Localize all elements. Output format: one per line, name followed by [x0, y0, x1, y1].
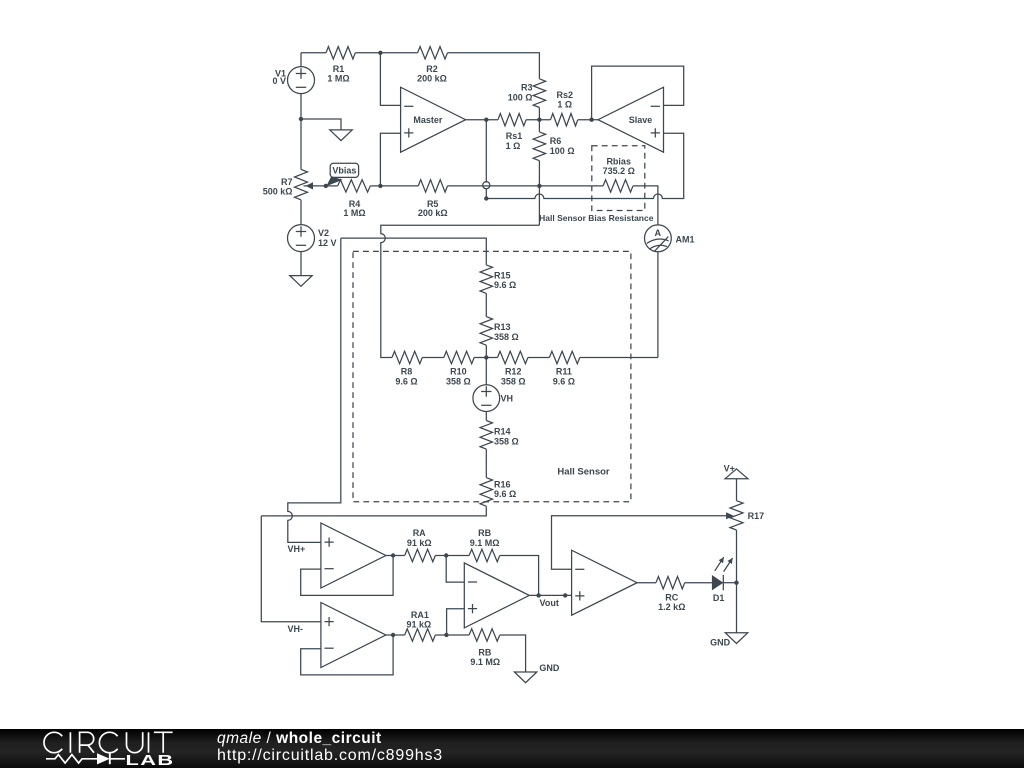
- wire hall top feed: [341, 238, 487, 265]
- resistor R8: [392, 351, 422, 363]
- ammeter AM1: [645, 225, 672, 252]
- wire RC to D1: [685, 582, 712, 584]
- svg-text:100 Ω: 100 Ω: [508, 92, 533, 102]
- resistor R12: [498, 351, 528, 363]
- svg-text:R10: R10: [450, 367, 467, 377]
- CircuitLab logo: [0, 729, 200, 769]
- node Vout 1: [536, 593, 540, 597]
- voltage source V2: [288, 225, 315, 252]
- wire comparator out to RC: [637, 582, 656, 584]
- wire Vbias to R4: [326, 185, 338, 187]
- resistor RB top: [469, 549, 500, 561]
- wire R16 bottom: [261, 506, 486, 516]
- svg-text:VH-: VH-: [288, 624, 304, 634]
- svg-text:VH: VH: [501, 394, 514, 404]
- label Rs2 value: [557, 90, 574, 110]
- LED D1: [712, 557, 733, 590]
- resistor Rs1: [498, 114, 526, 126]
- label RC value: [658, 593, 685, 612]
- label V1 value: [272, 69, 286, 87]
- wire Rs2 to Slave: [578, 119, 598, 121]
- op-amp Master: [401, 87, 466, 152]
- resistor RC: [656, 577, 685, 589]
- wire R15-R13: [485, 293, 487, 316]
- svg-text:RB: RB: [478, 528, 491, 538]
- svg-text:R17: R17: [748, 511, 765, 521]
- potentiometer R7: [295, 169, 308, 199]
- svg-text:Rs1: Rs1: [506, 131, 523, 141]
- svg-text:9.6 Ω: 9.6 Ω: [553, 376, 575, 386]
- node + input junction: [378, 184, 382, 188]
- svg-text:Hall Sensor: Hall Sensor: [557, 466, 610, 477]
- wire bridge left drop: [381, 225, 540, 357]
- svg-text:R14: R14: [494, 427, 511, 437]
- label RA1 value: [407, 610, 432, 630]
- wire VH+ feedback: [301, 556, 393, 596]
- wire R4 to R5: [370, 185, 418, 187]
- wire VH- feedback: [301, 635, 393, 675]
- arrow to R17 wiper: [726, 512, 734, 519]
- svg-text:12 V: 12 V: [318, 238, 337, 248]
- wire center to VH: [485, 358, 487, 385]
- ground below V2: [290, 276, 312, 287]
- dashed box Hall Sensor: [353, 251, 631, 501]
- supply V+: [724, 463, 748, 478]
- wire RA to RB: [435, 555, 469, 557]
- wire Master out down: [485, 120, 487, 199]
- svg-text:Rbias: Rbias: [606, 157, 631, 167]
- op-amp VH+ buffer: [321, 523, 386, 588]
- wire comparator - input: [552, 516, 728, 569]
- svg-text:91 kΩ: 91 kΩ: [407, 538, 432, 548]
- bottom bar: [0, 729, 1024, 768]
- wire Rbias to AM1: [633, 186, 658, 225]
- op-amp difference: [464, 563, 529, 628]
- svg-text:Hall Sensor Bias Resistance: Hall Sensor Bias Resistance: [539, 213, 654, 223]
- dashed box Rbias: [592, 146, 645, 211]
- label GND right: [710, 638, 731, 648]
- node V1 bottom: [299, 117, 303, 121]
- wire R8-R10: [422, 357, 444, 359]
- svg-text:R15: R15: [494, 271, 511, 281]
- wire R17 to ground: [736, 530, 738, 633]
- flag Vbias: [326, 163, 358, 186]
- label R10 value: [446, 367, 471, 387]
- svg-text:358 Ω: 358 Ω: [494, 332, 519, 342]
- wire RB to output: [500, 556, 539, 596]
- resistor R13: [480, 317, 492, 346]
- node Vout 2: [563, 593, 567, 597]
- resistor R6: [533, 132, 545, 161]
- svg-text:1 Ω: 1 Ω: [557, 100, 572, 110]
- svg-text:100 Ω: 100 Ω: [550, 146, 575, 156]
- ground right: [725, 633, 747, 644]
- node VH+ output: [391, 553, 395, 557]
- svg-text:200 kΩ: 200 kΩ: [418, 208, 448, 218]
- resistor R1: [326, 47, 355, 59]
- label RB bottom value: [470, 648, 500, 668]
- label D1: [713, 593, 725, 603]
- resistor Rs2: [551, 114, 578, 126]
- label R7 value: [263, 177, 293, 196]
- label V2 value: [318, 228, 337, 248]
- node VH- output: [391, 633, 395, 637]
- svg-text:1 MΩ: 1 MΩ: [343, 208, 365, 218]
- wire AM1 down: [657, 252, 659, 358]
- wire Slave feedback top: [592, 66, 684, 120]
- svg-text:0 V: 0 V: [272, 76, 286, 86]
- label R13 value: [494, 322, 519, 342]
- wire R3 bottom: [538, 108, 540, 120]
- svg-text:R16: R16: [494, 479, 511, 489]
- wire to VH- input: [261, 516, 321, 622]
- node Master output: [484, 118, 488, 122]
- wire R1 to R2: [355, 52, 417, 54]
- label R3 value: [508, 83, 533, 103]
- label VH: [501, 394, 514, 404]
- svg-text:500 kΩ: 500 kΩ: [263, 187, 293, 197]
- resistor R11: [549, 351, 579, 363]
- svg-text:Rs2: Rs2: [557, 90, 574, 100]
- label R12 value: [501, 367, 526, 387]
- resistor R3: [533, 79, 545, 108]
- resistor R10: [444, 351, 474, 363]
- node D1 R17: [734, 581, 738, 585]
- svg-text:1.2 kΩ: 1.2 kΩ: [658, 602, 685, 612]
- svg-text:9.6 Ω: 9.6 Ω: [494, 489, 516, 499]
- svg-text:GND: GND: [710, 638, 731, 648]
- wire to ground stub: [301, 119, 341, 130]
- wire R12-R11: [528, 357, 550, 359]
- resistor R16: [480, 478, 492, 507]
- op-amp VH- buffer: [321, 603, 386, 668]
- wire center-R12: [486, 357, 497, 359]
- svg-text:1 MΩ: 1 MΩ: [327, 74, 349, 84]
- svg-text:200 kΩ: 200 kΩ: [417, 74, 447, 84]
- wire V1 to R7: [300, 119, 302, 169]
- svg-text:LAB: LAB: [126, 751, 175, 768]
- wire V1 top to R1: [301, 52, 326, 54]
- svg-text:358 Ω: 358 Ω: [501, 376, 526, 386]
- svg-text:358 Ω: 358 Ω: [494, 436, 519, 446]
- label R2 value: [417, 64, 447, 84]
- node R6 bottom junction: [537, 184, 541, 188]
- svg-text:V2: V2: [318, 228, 329, 238]
- svg-text:R3: R3: [521, 83, 533, 93]
- wire to Master - input: [380, 53, 400, 106]
- resistor RB bottom: [469, 629, 500, 641]
- wire R5 to Rbias: [448, 185, 604, 187]
- node summing bottom: [444, 633, 448, 637]
- wire Slave + input: [486, 133, 683, 198]
- svg-text:R6: R6: [550, 136, 562, 146]
- R7 wiper arrow: [304, 182, 326, 189]
- wire RA1 to RB: [435, 634, 469, 636]
- ground mid: [514, 672, 536, 683]
- label R17: [748, 511, 765, 521]
- svg-text:D1: D1: [713, 593, 725, 603]
- svg-text:AM1: AM1: [676, 235, 695, 245]
- wire R2 to R3 top: [448, 53, 540, 79]
- svg-text:Slave: Slave: [629, 115, 653, 125]
- svg-text:R13: R13: [494, 322, 511, 332]
- label AM1: [676, 235, 695, 245]
- svg-text:9.1 MΩ: 9.1 MΩ: [470, 657, 500, 667]
- node mid junction: [537, 118, 541, 122]
- wire R3 to R6: [538, 120, 540, 132]
- svg-text:V+: V+: [724, 463, 735, 473]
- url line: [217, 748, 443, 764]
- wire hall left drop: [288, 238, 341, 542]
- wire to diff - input: [446, 556, 464, 583]
- open node: [483, 182, 490, 189]
- svg-text:9.1 MΩ: 9.1 MΩ: [470, 538, 500, 548]
- label R14 value: [494, 427, 519, 447]
- node Vbias wiper: [324, 184, 328, 188]
- svg-text:9.6 Ω: 9.6 Ω: [494, 280, 516, 290]
- resistor R2: [418, 47, 448, 59]
- svg-text:R1: R1: [333, 64, 345, 74]
- potentiometer R17: [730, 501, 743, 530]
- resistor R14: [480, 421, 492, 450]
- svg-text:R2: R2: [426, 64, 438, 74]
- label R5 value: [418, 199, 448, 218]
- wire VH to R14: [485, 412, 487, 421]
- wire VH- out to RA1: [386, 634, 405, 636]
- wire R13 down: [485, 345, 487, 357]
- svg-text:RA1: RA1: [411, 610, 429, 620]
- svg-text:735.2 Ω: 735.2 Ω: [603, 166, 635, 176]
- label R1 value: [327, 64, 349, 84]
- wire R6 down: [538, 161, 540, 226]
- wire Rs1 to Rs2: [526, 119, 550, 121]
- svg-text:R12: R12: [505, 367, 522, 377]
- label RA value: [407, 528, 432, 548]
- wire VH+ out to RA: [386, 555, 405, 557]
- svg-text:R8: R8: [401, 367, 413, 377]
- wire R10-center: [474, 357, 486, 359]
- op-amp comparator: [572, 550, 638, 615]
- wire Vout: [529, 594, 571, 596]
- node bridge center: [484, 355, 488, 359]
- svg-text:91 kΩ: 91 kΩ: [407, 620, 432, 630]
- op-amp Slave: [598, 87, 664, 152]
- label Hall Sensor Bias Resistance: [539, 213, 654, 223]
- label GND mid: [539, 663, 560, 673]
- svg-text:Vout: Vout: [540, 598, 559, 608]
- node summing top: [444, 553, 448, 557]
- resistor R15: [480, 265, 492, 294]
- label Rs1 value: [506, 131, 523, 151]
- label R8 value: [395, 367, 417, 387]
- svg-text:A: A: [654, 228, 661, 238]
- wire V+ to R17: [736, 479, 738, 501]
- resistor RA: [405, 549, 436, 561]
- resistor R5: [418, 180, 447, 192]
- credit line: [217, 731, 382, 747]
- label VH-: [288, 624, 304, 634]
- wire Master output: [466, 119, 498, 121]
- wire V2 to ground: [300, 252, 302, 276]
- svg-text:VH+: VH+: [288, 544, 306, 554]
- svg-text:Master: Master: [413, 115, 443, 125]
- wire R11 to AM1 line: [580, 357, 658, 359]
- node Slave input: [589, 118, 593, 122]
- svg-text:358 Ω: 358 Ω: [446, 376, 471, 386]
- label RB top value: [470, 528, 500, 548]
- svg-text:RA: RA: [413, 528, 426, 538]
- label R11 value: [553, 367, 575, 387]
- wire D1 to R17 line: [723, 582, 736, 584]
- wire R7 to V2: [300, 200, 302, 225]
- label VH+: [288, 544, 306, 554]
- label Hall Sensor: [557, 466, 610, 477]
- label Vout: [540, 598, 559, 608]
- label R4 value: [343, 199, 365, 218]
- node wire B start: [484, 196, 488, 200]
- wire RB bottom to ground: [500, 635, 526, 672]
- svg-text:Vbias: Vbias: [332, 165, 356, 175]
- label Rbias value: [603, 157, 635, 177]
- label R15 value: [494, 271, 516, 291]
- voltage source VH: [473, 385, 500, 412]
- ground near V1: [330, 130, 352, 141]
- svg-text:R11: R11: [556, 367, 572, 377]
- svg-text:1 Ω: 1 Ω: [506, 141, 521, 151]
- resistor R4: [338, 180, 371, 192]
- voltage source V1: [288, 53, 315, 119]
- resistor Rbias: [603, 180, 633, 192]
- label R16 value: [494, 479, 516, 499]
- svg-text:RB: RB: [478, 648, 491, 658]
- wire to Master + input: [380, 133, 400, 186]
- resistor RA1: [405, 629, 436, 641]
- node junction top: [378, 51, 382, 55]
- wire to diff + input: [447, 609, 465, 635]
- svg-text:GND: GND: [539, 663, 560, 673]
- label R6 value: [550, 136, 575, 156]
- wire R14-R16: [485, 449, 487, 478]
- svg-text:9.6 Ω: 9.6 Ω: [395, 376, 417, 386]
